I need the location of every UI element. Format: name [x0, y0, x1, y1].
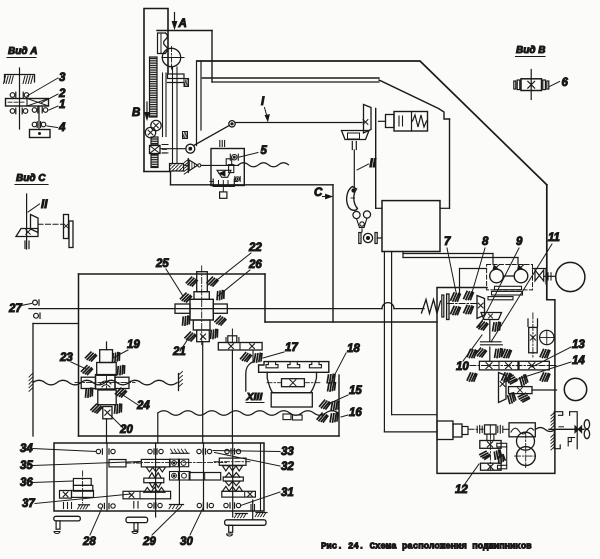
- grounds middle: [171, 452, 189, 454]
- svg-text:Вид А: Вид А: [8, 46, 38, 57]
- middle worm unit: [134, 462, 228, 464]
- gear bar left: [479, 361, 518, 370]
- svg-text:Вид С: Вид С: [16, 173, 46, 184]
- right gearbox outline: [437, 288, 555, 474]
- valve b in box 5: [234, 176, 236, 181]
- bearing bar XIII top: [218, 343, 262, 351]
- shaft above bar: [228, 336, 237, 343]
- svg-text:B: B: [132, 107, 140, 119]
- cam hook: [347, 187, 358, 211]
- anchor wall of wavy shaft: [178, 374, 180, 391]
- middle shafts: [155, 443, 157, 517]
- coupling ticks below bevel: [351, 142, 353, 150]
- worm box: [509, 423, 535, 437]
- damper cylinder with spring: [394, 112, 428, 132]
- pipe curve to XIII label: [246, 362, 252, 391]
- svg-text:18: 18: [347, 343, 360, 355]
- link line I: [235, 122, 362, 124]
- view C coupling ticks: [24, 241, 26, 249]
- view A gear bar (item 2): [6, 99, 49, 107]
- svg-text:II: II: [41, 199, 48, 211]
- top pinion circle: [162, 48, 180, 66]
- spool step in box 5: [226, 159, 232, 165]
- svg-text:24: 24: [136, 400, 150, 412]
- svg-text:A: A: [178, 18, 187, 30]
- stand of item 5: [213, 179, 234, 186]
- svg-text:36: 36: [20, 477, 33, 489]
- svg-text:5: 5: [261, 145, 268, 157]
- svg-text:1: 1: [59, 99, 65, 111]
- svg-text:12: 12: [455, 484, 468, 496]
- right foot: [252, 500, 254, 520]
- base line to C wall: [171, 184, 334, 186]
- bottom gearbox outline: [54, 443, 264, 511]
- top bearing symbols: [96, 449, 100, 453]
- svg-text:16: 16: [349, 407, 362, 419]
- left worm unit items 35 36 37: [106, 443, 108, 511]
- svg-text:35: 35: [20, 460, 33, 472]
- vertical shaft below bevel 9: [489, 320, 491, 342]
- funnel in box 5: [217, 170, 231, 177]
- crank handle: [584, 420, 589, 429]
- view A bearing pair (item 4): [32, 122, 37, 127]
- pump 1: [490, 269, 504, 283]
- svg-text:II: II: [370, 158, 377, 170]
- pads around cross assembly: [180, 292, 192, 303]
- beam top chord: [197, 61, 547, 185]
- gauge circles: [517, 432, 535, 450]
- view C shaft II vertical: [26, 194, 28, 249]
- svg-text:6: 6: [562, 77, 569, 89]
- left gear assembly: [106, 342, 108, 350]
- long shaft line item 27: [29, 308, 382, 310]
- bevel gear item 9: [477, 296, 485, 319]
- svg-text:27: 27: [8, 303, 22, 315]
- hatched anchor right of slide: [184, 79, 189, 87]
- inner bracket box: [32, 324, 34, 437]
- vertical unit item 13 upper: [527, 319, 529, 327]
- svg-text:26: 26: [248, 259, 262, 271]
- feed verticals to screw drive: [391, 252, 393, 415]
- follower rollers: [353, 211, 360, 218]
- pump mounting bars: [495, 286, 522, 289]
- flexible shaft from box 5: [239, 163, 289, 167]
- view C right-hand bearing bars: [64, 215, 69, 239]
- bottom bearing symbols: [98, 504, 102, 508]
- view C dashed shaft: [38, 223, 64, 225]
- view A top bracket with hatching: [5, 75, 35, 83]
- svg-text:3: 3: [59, 72, 66, 84]
- partition: [260, 443, 262, 511]
- svg-text:17: 17: [285, 342, 298, 354]
- arrow A: [174, 13, 176, 28]
- bracket bevel left of item 5: [187, 159, 189, 173]
- right worm unit items 31 32 33: [219, 458, 246, 465]
- pads under wavy 16: [317, 412, 328, 422]
- link bar: [194, 126, 230, 146]
- valve a in box 5: [229, 154, 231, 160]
- middle foot: [126, 517, 148, 522]
- screw shaft to crank: [549, 428, 584, 430]
- valve on box II: [359, 233, 361, 244]
- bearing symbols item 27: [33, 300, 38, 305]
- hatched anchor lower: [183, 132, 188, 139]
- svg-text:4: 4: [58, 122, 66, 134]
- leadscrew nut hatched: [170, 164, 184, 172]
- table item XIII: [259, 362, 329, 373]
- shaft to handwheel: [544, 275, 556, 277]
- bevel gear pair on line I: [364, 105, 372, 134]
- gear rack: [150, 57, 158, 117]
- view B bearing block (item 6): [530, 70, 532, 100]
- svg-text:8: 8: [482, 236, 489, 248]
- rod II: [353, 150, 355, 187]
- small guides under table: [283, 414, 291, 420]
- ticks above box 5: [219, 141, 221, 147]
- svg-text:19: 19: [127, 339, 140, 351]
- flexible wavy shaft left: [33, 380, 177, 385]
- svg-text:28: 28: [82, 536, 96, 548]
- handwheel top: [556, 262, 585, 291]
- pads around gear bar: [467, 350, 477, 358]
- inner partition top: [460, 268, 487, 270]
- table pads right: [325, 373, 336, 383]
- inner wall vertical to box II: [449, 119, 451, 208]
- wavy screw shaft: [535, 428, 555, 432]
- svg-text:25: 25: [155, 258, 169, 270]
- view C bevel gear pair: [31, 215, 39, 233]
- box II: [382, 201, 440, 252]
- svg-text:22: 22: [248, 242, 262, 254]
- gear pair items 7 8: [451, 293, 461, 301]
- handwheel bottom: [564, 378, 586, 400]
- view A vertical shaft 2: [38, 106, 40, 130]
- couplings middle: [170, 459, 179, 467]
- view A bearing row lower (item 1): [10, 109, 15, 114]
- svg-text:37: 37: [22, 498, 35, 510]
- grounds right: [235, 513, 247, 515]
- svg-text:21: 21: [172, 346, 186, 358]
- view A shaft: [19, 68, 21, 129]
- svg-text:29: 29: [142, 536, 156, 548]
- svg-text:C: C: [314, 187, 323, 199]
- svg-text:32: 32: [281, 461, 294, 473]
- svg-text:9: 9: [516, 236, 523, 248]
- gear bar right: [519, 361, 549, 370]
- svg-text:10: 10: [456, 361, 469, 373]
- feed cylinder: [437, 421, 453, 440]
- feed lines from box II to pumps: [402, 252, 404, 258]
- view A bottom gear: [30, 130, 51, 138]
- pads below bar: [240, 352, 251, 362]
- pads around left assembly: [85, 351, 97, 362]
- ticks middle: [133, 502, 135, 509]
- link pivot upper: [229, 121, 235, 127]
- wavy shaft lower: [158, 411, 339, 416]
- thrust bracket housing: [551, 413, 554, 416]
- svg-text:7: 7: [444, 236, 451, 248]
- svg-text:XIII: XIII: [246, 391, 264, 403]
- cam strip: [158, 33, 166, 54]
- coupling to screw: [468, 428, 483, 430]
- beam support legs: [196, 61, 198, 146]
- line from column to link pivot: [160, 148, 186, 150]
- view A bearing pair upper (item 3): [10, 93, 15, 98]
- vertical gear shaft with bearing: [151, 137, 158, 145]
- svg-text:34: 34: [20, 443, 33, 455]
- box of item 5: [211, 149, 244, 186]
- coupling bowtie item 11: [535, 270, 544, 281]
- svg-text:30: 30: [180, 536, 193, 548]
- vertical wall at C: [332, 185, 334, 322]
- gear housing box: [78, 274, 80, 436]
- worm wheel item 12: [489, 434, 491, 472]
- vertical from wavy to bottom gearbox: [157, 413, 159, 443]
- column outline: [144, 9, 168, 172]
- left foot: [54, 516, 81, 521]
- right wall vertical: [546, 185, 548, 300]
- pump coupling shaft: [503, 275, 514, 277]
- coupling flange item 10: [481, 341, 502, 343]
- bevel unit item 14 with handwheel: [499, 373, 507, 403]
- slide top bars: [168, 74, 185, 79]
- link pivot lower: [186, 144, 195, 153]
- arrow B: [146, 102, 148, 118]
- svg-text:14: 14: [572, 355, 585, 367]
- bevel gears at column foot: [151, 120, 161, 130]
- table body: [267, 372, 316, 392]
- svg-text:13: 13: [572, 339, 585, 351]
- screw end bowtie: [575, 426, 582, 433]
- head box top line: [157, 30, 212, 32]
- svg-text:33: 33: [281, 446, 294, 458]
- spring clutch on long shaft: [422, 300, 441, 314]
- hydraulic pumps dashed box: [487, 265, 533, 290]
- gear bar centreline: [470, 365, 556, 367]
- svg-text:15: 15: [349, 385, 362, 397]
- svg-text:31: 31: [281, 487, 294, 499]
- svg-text:11: 11: [548, 232, 560, 244]
- indicator circle: [540, 330, 554, 344]
- svg-text:Рис. 24. Схема расположения по: Рис. 24. Схема расположения подшипников: [321, 542, 532, 552]
- svg-text:Вид В: Вид В: [516, 45, 546, 56]
- cross gear assembly centre: [201, 266, 203, 346]
- beam lower chords: [203, 77, 380, 79]
- pump 2: [514, 269, 528, 283]
- slide bars: [162, 73, 164, 137]
